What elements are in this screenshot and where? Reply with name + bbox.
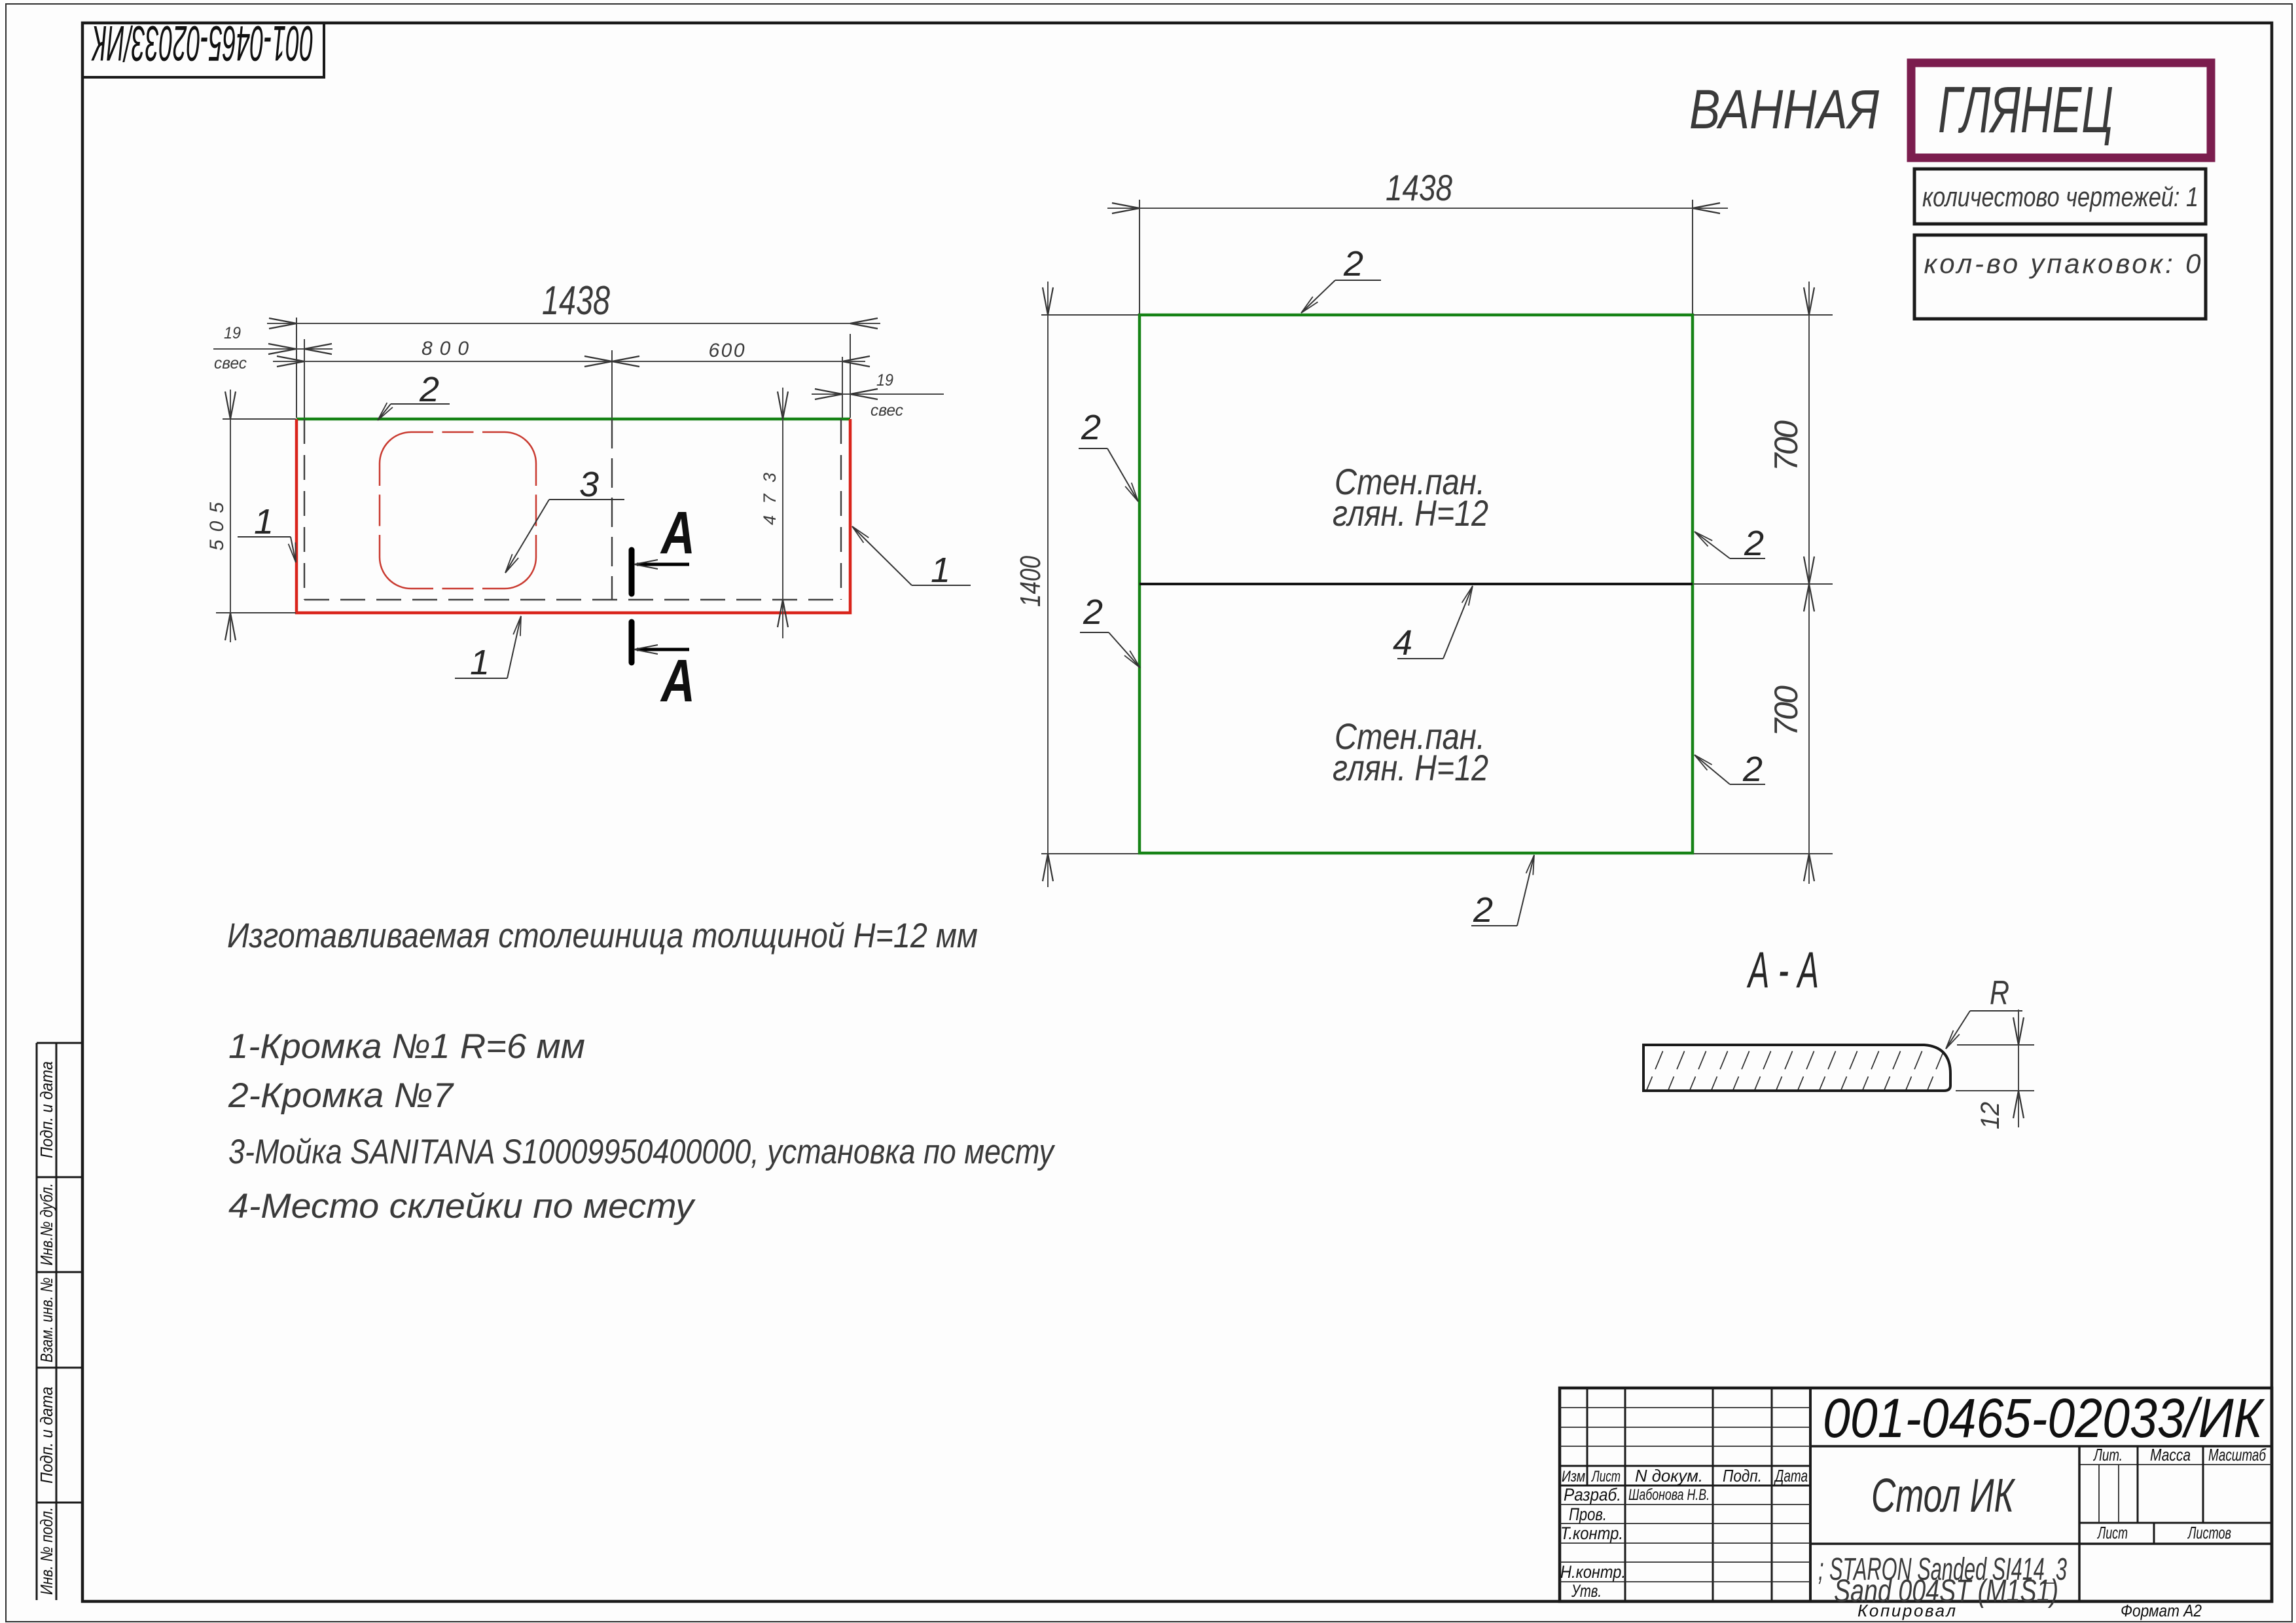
svg-text:R: R — [1990, 974, 2009, 1012]
svg-text:свес: свес — [214, 354, 247, 373]
label 2 leader right upper — [1695, 524, 1765, 563]
svg-text:Формат А2: Формат А2 — [2121, 1601, 2202, 1620]
svg-text:4: 4 — [1393, 623, 1412, 663]
svg-text:1: 1 — [931, 551, 950, 590]
dimension 1438 (right drawing) — [1107, 167, 1728, 314]
label 2 leader right lower — [1695, 750, 1765, 789]
dimension 1438 top (left drawing) — [267, 278, 880, 418]
svg-text:Шабонова Н.В.: Шабонова Н.В. — [1628, 1486, 1710, 1504]
svg-text:свес: свес — [870, 401, 903, 420]
dimension 19 sves right — [812, 371, 944, 420]
svg-text:Дата: Дата — [1774, 1466, 1808, 1486]
svg-text:700: 700 — [1768, 685, 1804, 737]
left margin strip labels — [37, 1061, 56, 1595]
svg-text:Подп. и дата: Подп. и дата — [37, 1061, 56, 1158]
svg-text:Инв.№ дубл.: Инв.№ дубл. — [37, 1183, 56, 1266]
svg-text:700: 700 — [1768, 420, 1804, 471]
label 2 leader left upper — [1079, 408, 1138, 501]
svg-text:3-Мойка SANITANA S1000995040: 3-Мойка SANITANA S10009950400000, устано… — [228, 1133, 1056, 1171]
svg-text:ВАННАЯ: ВАННАЯ — [1689, 79, 1880, 140]
svg-text:1: 1 — [254, 502, 274, 541]
label 2 leader (green edge, left drawing) — [378, 370, 450, 420]
svg-text:2: 2 — [1744, 524, 1764, 563]
svg-text:600: 600 — [709, 340, 745, 361]
svg-text:1: 1 — [470, 643, 490, 682]
title block grid — [1560, 1388, 2272, 1601]
svg-text:Н.контр.: Н.контр. — [1560, 1562, 1626, 1582]
svg-text:Взам. инв. №: Взам. инв. № — [37, 1277, 56, 1362]
svg-text:Лит.: Лит. — [2093, 1445, 2123, 1465]
box quantity of drawings — [1914, 169, 2206, 224]
svg-text:1438: 1438 — [542, 278, 610, 323]
svg-text:Подп. и дата: Подп. и дата — [37, 1387, 56, 1484]
svg-text:473: 473 — [760, 473, 780, 525]
label 2 leader top (right drawing) — [1301, 244, 1381, 313]
svg-text:ГЛЯНЕЦ: ГЛЯНЕЦ — [1938, 73, 2113, 147]
countertop outline red (kromka 1) — [296, 419, 850, 613]
svg-text:Т.контр.: Т.контр. — [1560, 1523, 1623, 1543]
left margin strip boxes — [37, 1043, 82, 1600]
svg-text:1-Кромка №1 R=6 мм: 1-Кромка №1 R=6 мм — [228, 1027, 585, 1066]
svg-text:4-Место склейки по месту: 4-Место склейки по месту — [228, 1187, 696, 1226]
top-left document number box — [82, 23, 324, 77]
svg-text:12: 12 — [1976, 1102, 2005, 1129]
svg-text:2: 2 — [1343, 244, 1363, 283]
dimensions 800 and 600 — [273, 338, 870, 418]
title block left labels — [1560, 1466, 1808, 1601]
svg-text:2: 2 — [1742, 750, 1763, 789]
dimension 1400 — [1014, 282, 1138, 887]
svg-text:глян. H=12: глян. H=12 — [1333, 492, 1488, 534]
glue joint line (poz.4) — [1139, 583, 1693, 585]
svg-text:Утв.: Утв. — [1571, 1581, 1602, 1601]
cabinet dashed divider 800/600 — [611, 419, 613, 600]
cabinet dashed bottom edge — [304, 599, 841, 600]
svg-text:2-Кромка №7: 2-Кромка №7 — [228, 1076, 455, 1115]
section mark A upper — [632, 500, 695, 594]
svg-text:А: А — [660, 500, 695, 566]
svg-text:800: 800 — [422, 338, 469, 359]
label 1 leader left — [238, 502, 296, 562]
dimension 505 left — [206, 390, 296, 642]
svg-text:2: 2 — [1083, 593, 1103, 632]
svg-text:Инв. № подл.: Инв. № подл. — [37, 1507, 56, 1595]
wall panels outline (green, kromka 7) — [1139, 315, 1693, 853]
svg-text:А - А: А - А — [1747, 941, 1819, 998]
svg-text:Масса: Масса — [2150, 1445, 2191, 1465]
svg-text:19: 19 — [876, 371, 893, 390]
svg-text:505: 505 — [206, 502, 228, 551]
svg-text:Листов: Листов — [2187, 1523, 2231, 1542]
section mark A lower — [632, 622, 695, 714]
svg-text:А: А — [660, 647, 695, 714]
svg-text:001-0465-02033/ИК: 001-0465-02033/ИК — [91, 15, 314, 71]
svg-text:001-0465-02033/ИК: 001-0465-02033/ИК — [1823, 1387, 2265, 1449]
dimensions 700 and 700 — [1694, 282, 1833, 884]
svg-text:Подп.: Подп. — [1723, 1466, 1762, 1486]
svg-text:количестово чертежей: 1: количестово чертежей: 1 — [1922, 181, 2198, 212]
label 1 leader bottom — [455, 616, 521, 682]
svg-text:Копировал: Копировал — [1857, 1601, 1956, 1620]
svg-text:1438: 1438 — [1386, 167, 1452, 208]
box quantity of packages — [1914, 235, 2206, 319]
label R radius leader — [1946, 974, 2022, 1049]
svg-text:Лист: Лист — [1591, 1468, 1621, 1486]
cabinet dashed left edge — [304, 419, 305, 600]
label 2 leader left lower — [1080, 593, 1140, 668]
svg-text:Стол ИК: Стол ИК — [1871, 1470, 2016, 1522]
section A-A hatched bar — [1623, 1041, 1969, 1095]
svg-text:1400: 1400 — [1014, 556, 1047, 607]
svg-text:3: 3 — [579, 465, 599, 504]
svg-text:Изм: Изм — [1562, 1468, 1585, 1486]
dimension 12 thickness — [1956, 1010, 2034, 1129]
svg-text:2: 2 — [1081, 408, 1101, 447]
svg-text:глян. H=12: глян. H=12 — [1333, 747, 1488, 788]
label 1 leader right — [852, 526, 971, 590]
dimension 19 sves left — [213, 324, 332, 418]
svg-text:19: 19 — [224, 324, 241, 342]
svg-text:2: 2 — [1473, 890, 1493, 930]
label 2 leader bottom (right drawing) — [1471, 855, 1534, 930]
label 4 leader (glue joint) — [1393, 586, 1473, 663]
label 3 leader (sink) — [505, 465, 624, 573]
svg-text:Изготавливаемая столешница т: Изготавливаемая столешница толщиной H=12… — [227, 917, 978, 955]
title block right small labels — [2093, 1445, 2267, 1542]
dimension 473 — [760, 388, 788, 638]
svg-text:N докум.: N докум. — [1635, 1466, 1703, 1486]
svg-text:Пров.: Пров. — [1569, 1504, 1607, 1524]
svg-text:Разраб.: Разраб. — [1564, 1485, 1621, 1504]
cabinet dashed right edge — [840, 419, 842, 600]
purple box GLYANETS — [1911, 63, 2211, 158]
sink cutout dashed (poz.3) — [380, 432, 536, 589]
svg-text:Масштаб: Масштаб — [2208, 1445, 2267, 1465]
countertop top edge (green, kromka 7) — [296, 418, 850, 421]
svg-text:Лист: Лист — [2097, 1523, 2128, 1542]
